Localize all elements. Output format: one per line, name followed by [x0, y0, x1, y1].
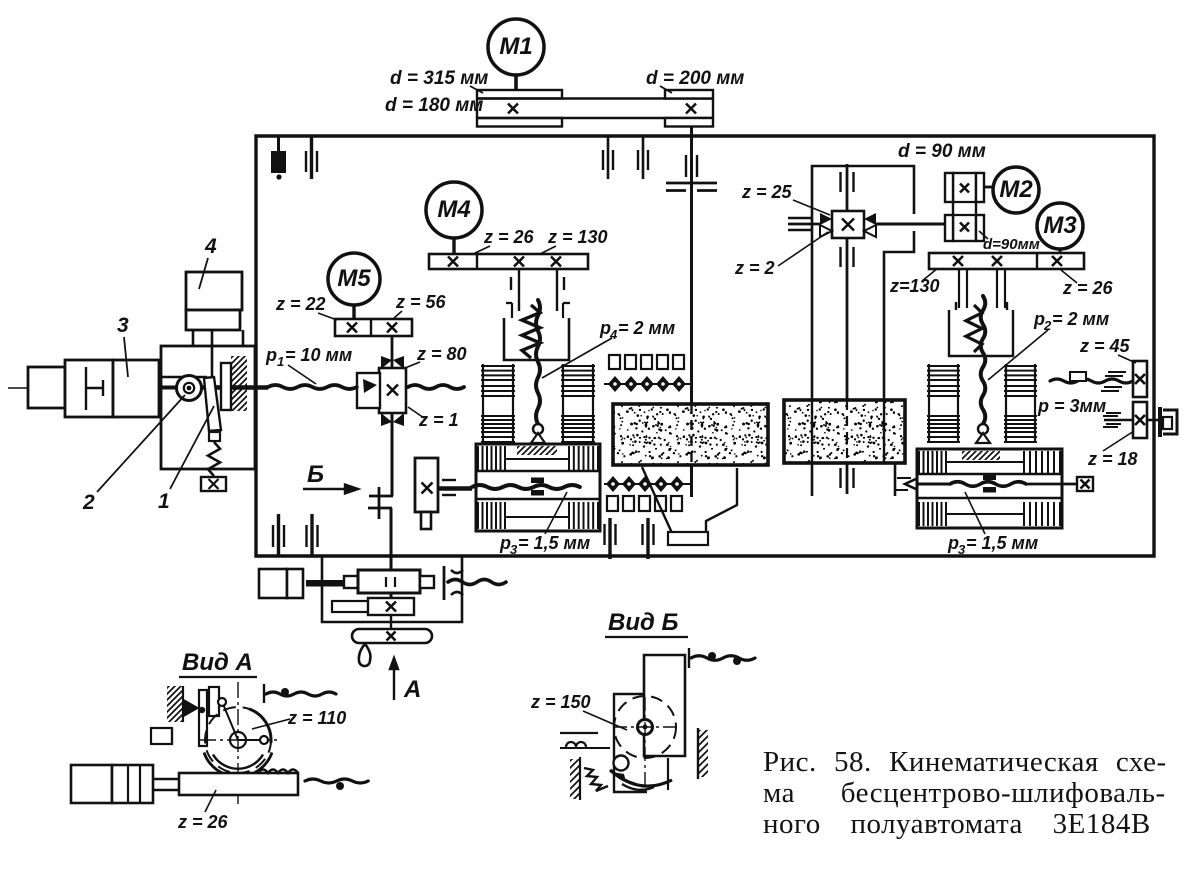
spring box right — [949, 302, 1013, 356]
shaft to z18 — [1104, 419, 1133, 422]
shafts below gearbox to spring box — [958, 269, 960, 308]
svg-text:p: p — [265, 345, 277, 365]
feed shaft bar — [344, 576, 358, 588]
gear stacks right unit — [928, 364, 930, 443]
svg-text:= 10 мм: = 10 мм — [285, 345, 352, 365]
spring zigzag — [522, 305, 540, 358]
view B wavy top — [688, 648, 690, 668]
screw p2 wavy vertical — [981, 296, 986, 424]
view B right wall hatch — [697, 728, 699, 779]
svg-text:z = 130: z = 130 — [547, 227, 608, 247]
vertical shaft from pulley to grinding wheel — [690, 127, 693, 404]
dog clutch on vertical shaft — [369, 495, 393, 498]
belt pulleys M2 — [953, 173, 976, 241]
column under block 4 — [193, 330, 243, 347]
view A cylinder — [71, 765, 112, 803]
shafts below gearbox — [518, 269, 520, 311]
svg-text:= 1,5 мм: = 1,5 мм — [518, 533, 590, 553]
view B bottom wall hatch + spring — [579, 757, 581, 800]
stem from 4 to lever — [211, 330, 214, 377]
belt between pulleys — [477, 97, 713, 100]
motor M5 — [328, 253, 380, 305]
view B left ratchet — [560, 732, 598, 734]
dresser screw p3 wavy — [472, 485, 580, 489]
hydraulic cylinder bottom — [259, 569, 287, 598]
svg-text:M2: M2 — [999, 176, 1033, 203]
svg-text:3: 3 — [117, 314, 129, 337]
svg-text:z = 26: z = 26 — [483, 227, 535, 247]
svg-text:ма бесцентрово-шлифоваль-: ма бесцентрово-шлифоваль- — [763, 777, 1166, 809]
rounded feed bar — [352, 629, 432, 643]
view A rack z=26 — [179, 773, 298, 795]
svg-text:= 2 мм: = 2 мм — [618, 318, 675, 338]
column edges through wheel — [811, 400, 813, 463]
wedge slide — [221, 363, 231, 410]
svg-text:z = 1: z = 1 — [418, 410, 459, 430]
svg-text:z = 45: z = 45 — [1079, 336, 1131, 356]
spindle bearing circle 2 — [177, 376, 202, 401]
arrow A — [390, 658, 398, 700]
bearing marks left bottom — [272, 525, 274, 547]
svg-text:z = 110: z = 110 — [287, 708, 346, 728]
screw p=3mm wavy — [1050, 379, 1133, 383]
view B gear z=150 dashed — [614, 696, 676, 758]
gearbox z22/z56 — [335, 319, 412, 336]
bevel gearbox z25/z2 — [832, 211, 864, 238]
adjusting box with X — [201, 477, 226, 491]
svg-text:z = 26: z = 26 — [1062, 278, 1114, 298]
motor M2 — [984, 186, 994, 189]
machine bed frame — [256, 136, 1154, 556]
svg-text:Вид Б: Вид Б — [608, 609, 679, 636]
svg-text:1: 1 — [277, 354, 284, 369]
svg-text:= 1,5 мм: = 1,5 мм — [966, 533, 1038, 553]
wavy right of feed — [443, 566, 446, 600]
svg-text:4: 4 — [204, 235, 217, 258]
screw end ball pivot — [533, 424, 543, 434]
svg-text:M5: M5 — [337, 265, 371, 292]
X-box in housing — [332, 601, 370, 612]
svg-text:z = 18: z = 18 — [1087, 449, 1138, 469]
worm bevel marks top — [381, 356, 404, 369]
gear stacks left unit — [482, 364, 484, 443]
svg-text:z = 26: z = 26 — [177, 812, 229, 832]
head top-left cut — [161, 376, 207, 379]
worm gear z80/z1 box — [379, 368, 406, 413]
view A gear sector z=110 — [205, 707, 271, 773]
svg-text:Б: Б — [307, 461, 324, 488]
svg-text:d = 90 мм: d = 90 мм — [898, 141, 986, 162]
workpiece squares row bottom — [607, 496, 618, 511]
svg-text:1: 1 — [158, 490, 170, 513]
piston inside cylinder 3 — [85, 367, 87, 410]
leading wheel shaft dashed — [846, 400, 848, 463]
svg-text:z = 56: z = 56 — [395, 292, 447, 312]
view B bracket tall — [644, 655, 685, 756]
svg-text:Рис. 58. Кинематическая схе-: Рис. 58. Кинематическая схе- — [763, 746, 1167, 778]
shaft M5 gearbox to worm — [391, 336, 394, 369]
bearing marks on frame top — [602, 150, 604, 170]
svg-text:d = 180 мм: d = 180 мм — [385, 95, 483, 116]
dresser block (left wheel) — [476, 444, 600, 531]
couplings on shaft — [839, 172, 841, 192]
gear bar z18 cell — [1133, 402, 1147, 438]
gearbox z26/z130 — [429, 254, 588, 269]
motor M3 — [1037, 203, 1083, 249]
leading wheel — [784, 400, 905, 463]
svg-text:= 2 мм: = 2 мм — [1052, 309, 1109, 329]
view B left plate — [614, 694, 647, 792]
svg-text:d=90мм: d=90мм — [983, 236, 1040, 253]
leading wheel column — [812, 166, 914, 400]
motor M1 — [488, 19, 544, 75]
bearings below hopper — [603, 524, 605, 545]
svg-text:А: А — [403, 676, 421, 703]
view A ratchet pawl parts — [184, 700, 198, 716]
wheel spindle thick line — [159, 386, 178, 390]
motor M1 shaft stem — [514, 75, 518, 92]
svg-text:3: 3 — [510, 542, 518, 557]
dresser screw wavy (right) — [905, 478, 918, 490]
bearing on M1 wheel shaft — [685, 155, 687, 177]
spline shaft left of bevel — [788, 217, 812, 219]
bearing marks top-left — [277, 137, 280, 153]
dresser block (right wheel) — [917, 449, 1062, 528]
column below wheel — [811, 463, 814, 496]
svg-text:3: 3 — [958, 542, 966, 557]
leading wheel vertical shaft — [846, 164, 849, 400]
svg-text:2: 2 — [82, 491, 95, 514]
svg-text:M3: M3 — [1043, 212, 1077, 239]
svg-text:z = 2: z = 2 — [734, 258, 775, 278]
hydraulic cylinder 3 outer boxes — [28, 367, 65, 408]
gearbox z130/z26 — [929, 253, 1084, 269]
grinding wheel (left) — [613, 404, 768, 465]
drop symbol — [359, 644, 371, 666]
svg-text:z = 22: z = 22 — [275, 294, 326, 314]
belt drive: pulley d=315/180 (left) — [477, 90, 562, 99]
svg-text:z = 150: z = 150 — [530, 692, 591, 712]
feed gearbox housing — [322, 557, 462, 622]
head block item 1 housing — [161, 346, 255, 469]
spring box — [506, 303, 570, 318]
dresser pivot lever — [415, 458, 438, 512]
view B pinion + rack — [614, 756, 629, 771]
coupling on vertical shaft — [666, 182, 717, 185]
screw p4 wavy vertical — [536, 300, 540, 424]
wheel shaft dashed through wheel — [690, 404, 692, 465]
view A pawl top wavy — [263, 684, 265, 703]
lever item 1 — [204, 377, 221, 431]
handwheel bracket — [1147, 419, 1158, 422]
pulley d=200 (right) — [665, 90, 713, 99]
half-nut box left of worm — [357, 373, 380, 408]
block 4 (dresser slide) — [186, 272, 242, 310]
workpiece diamonds row top — [604, 383, 690, 385]
svg-text:p = 3мм: p = 3мм — [1037, 396, 1106, 416]
gear bar z45 cell — [1133, 361, 1147, 397]
spring under lever — [208, 442, 220, 476]
svg-text:ного полуавтомата 3Е184В: ного полуавтомата 3Е184В — [763, 808, 1151, 840]
vertical shaft M5 down — [391, 413, 394, 496]
motor M4 — [426, 182, 482, 238]
chute hopper — [642, 467, 737, 533]
svg-text:z = 25: z = 25 — [741, 182, 793, 202]
svg-text:M4: M4 — [437, 196, 470, 223]
workpiece squares row top — [609, 355, 620, 369]
svg-text:Вид А: Вид А — [182, 649, 253, 676]
svg-text:z = 80: z = 80 — [416, 344, 467, 364]
dash-dot spindle centerline — [8, 387, 262, 389]
workpiece diamonds row bottom — [604, 483, 690, 485]
leadscrew p1 wavy — [268, 385, 357, 389]
svg-text:z=130: z=130 — [889, 276, 940, 296]
shaft from lever — [438, 486, 472, 491]
shaft bevel to pulley — [876, 223, 945, 226]
svg-text:M1: M1 — [499, 33, 532, 60]
svg-text:d = 315 мм: d = 315 мм — [390, 68, 488, 89]
